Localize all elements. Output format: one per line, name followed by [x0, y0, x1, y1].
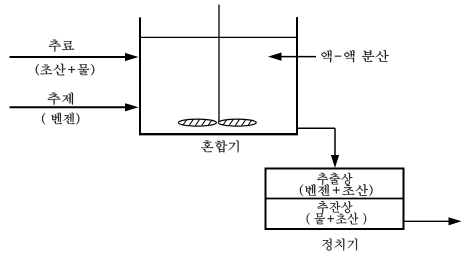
dispersion arrow line — [280, 56, 316, 58]
label ( 벤젠 ) benzene — [42, 113, 79, 125]
outlet pipe horizontal — [297, 127, 335, 129]
impeller left blade hatching — [183, 120, 212, 126]
label 추잔상 raffinate phase — [317, 201, 352, 213]
outlet pipe vertical — [334, 128, 336, 156]
dispersion arrowhead (points left) — [268, 53, 282, 61]
feed arrow line (추료) — [10, 56, 127, 58]
raffinate outlet line — [404, 220, 450, 222]
raffinate outlet arrowhead (points right) — [449, 217, 462, 225]
feed arrow line (추제) — [10, 106, 127, 108]
settler divider — [266, 198, 404, 200]
label solvent 추제 — [48, 93, 73, 105]
label 액-액 분산 liquid-liquid dispersion — [322, 50, 389, 62]
impeller right blade — [218, 119, 256, 126]
feed arrowhead (추제) — [125, 103, 139, 111]
mixer tank left wall — [139, 17, 141, 135]
feed arrowhead (추료) — [125, 53, 139, 61]
label 추출상 extract phase — [317, 173, 352, 185]
mixer tank right wall — [296, 17, 298, 135]
settler box — [266, 169, 404, 230]
impeller right blade hatching — [223, 120, 252, 126]
mixer tank bottom — [139, 133, 298, 135]
label ( 물+초산 ) — [307, 213, 366, 225]
liquid level line — [141, 36, 296, 38]
label 정치기 settler — [322, 238, 357, 250]
label (초산+물) acetic acid + water — [36, 64, 94, 76]
settler inlet arrowhead (points down) — [331, 155, 339, 168]
label 혼합기 mixer — [201, 140, 238, 152]
label ( 벤젠+초산 ) — [300, 184, 373, 196]
stirrer shaft — [218, 5, 220, 122]
label feed 추료 — [49, 40, 74, 52]
impeller left blade — [178, 119, 216, 126]
